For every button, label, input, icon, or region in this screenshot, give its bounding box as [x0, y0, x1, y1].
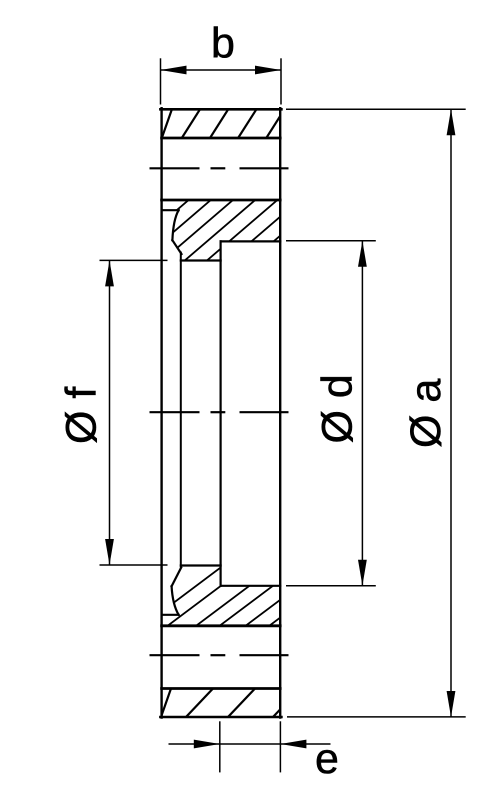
- svg-text:e: e: [315, 735, 339, 783]
- svg-text:Ø a: Ø a: [402, 379, 450, 448]
- svg-text:Ø d: Ø d: [314, 374, 362, 443]
- svg-text:Ø f: Ø f: [58, 386, 106, 444]
- svg-text:b: b: [211, 20, 235, 68]
